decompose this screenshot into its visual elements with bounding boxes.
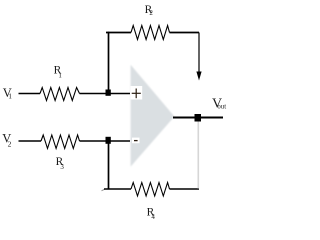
wire output (173, 117, 223, 119)
wire arrow down to output (198, 33, 200, 73)
wire top right (170, 32, 200, 34)
svg-text:1: 1 (8, 92, 12, 101)
wire bottom left corner tick (102, 189, 106, 191)
wire bottom right (170, 188, 200, 190)
wire top left (106, 32, 131, 34)
svg-text:2: 2 (8, 140, 12, 149)
minus label (134, 140, 138, 142)
svg-text:4: 4 (151, 213, 155, 221)
wire V2 lead (19, 140, 42, 142)
wire V1 lead (19, 93, 41, 95)
minus label backing (132, 138, 140, 144)
wire minus-node down (108, 141, 110, 189)
node minus input (106, 137, 111, 144)
node plus input (106, 90, 111, 96)
wire plus-node up (108, 32, 110, 94)
wire R1 to op-amp (80, 93, 131, 95)
resistor R3 (41, 135, 80, 149)
svg-text:out: out (217, 103, 226, 110)
resistor R4 (131, 183, 170, 197)
svg-text:1: 1 (58, 71, 62, 79)
svg-text:3: 3 (60, 163, 64, 171)
plus label backing (130, 86, 142, 100)
wire bottom left (104, 188, 131, 190)
wire R3 to op-amp (80, 140, 131, 142)
wire gray feedback vertical (197, 121, 199, 189)
node output (195, 114, 202, 122)
plus label (132, 92, 141, 94)
resistor R1 (40, 88, 80, 101)
svg-text:2: 2 (149, 9, 153, 17)
resistor R2 (131, 26, 170, 40)
